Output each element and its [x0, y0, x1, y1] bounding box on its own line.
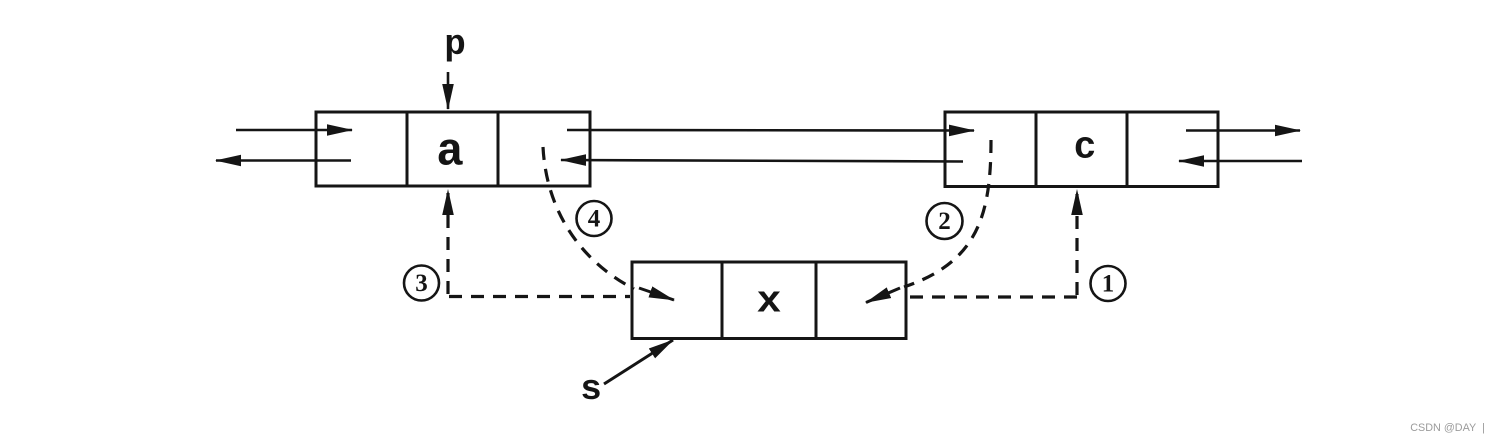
wire: incoming next arrow into a prior cell — [236, 129, 352, 132]
svg-text:4: 4 — [588, 206, 601, 233]
circled number 4 — [577, 201, 612, 236]
arrowhead into x prior cell — [639, 288, 674, 300]
wire: a.next to c arrow — [567, 129, 974, 132]
step 2 dashed curve from c.prior — [904, 140, 991, 287]
step 3 dashed horizontal wire — [449, 295, 630, 298]
circled number 3 — [404, 266, 439, 301]
wire: c.prior to a arrow — [561, 160, 963, 162]
circled number 1 — [1091, 266, 1126, 301]
wire: outgoing prev arrow from a prior cell — [216, 159, 351, 162]
svg-text:c: c — [1074, 127, 1097, 170]
wire: incoming prev arrow into c next cell — [1179, 160, 1302, 163]
node x box — [632, 262, 906, 339]
step 4 dashed curve from a.next — [543, 147, 634, 289]
svg-text:3: 3 — [415, 270, 428, 297]
s pointer arrow — [604, 340, 673, 384]
circled number 2 — [927, 203, 963, 239]
svg-text:CSDN @DAY |: CSDN @DAY | — [1410, 422, 1485, 434]
node a box — [316, 112, 590, 186]
step 1 dashed vertical arrow to c — [1075, 190, 1078, 295]
svg-text:p: p — [444, 24, 466, 65]
svg-text:s: s — [580, 369, 602, 410]
arrowhead into x next cell — [866, 288, 900, 303]
wire: c.next outgoing arrow — [1186, 129, 1300, 132]
svg-text:x: x — [757, 281, 782, 324]
p pointer arrow — [447, 72, 450, 109]
svg-text:1: 1 — [1102, 271, 1115, 298]
svg-text:a: a — [436, 127, 464, 179]
node c box — [945, 112, 1218, 187]
step 1 dashed horizontal wire — [908, 295, 1077, 298]
step 3 dashed vertical arrow to a — [446, 190, 449, 294]
svg-text:2: 2 — [938, 208, 951, 235]
